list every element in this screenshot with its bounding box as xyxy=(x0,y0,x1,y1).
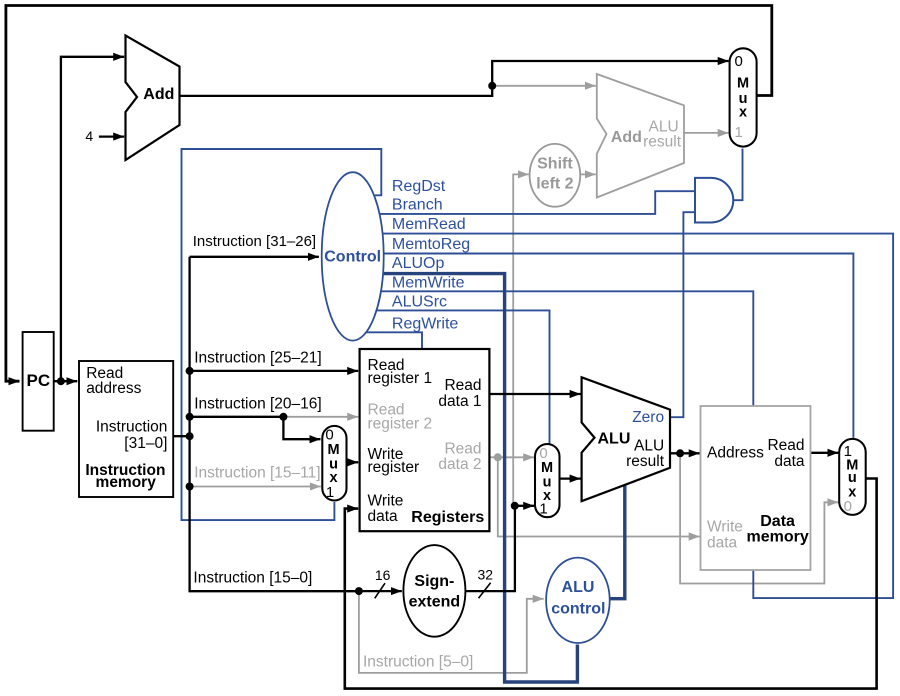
svg-text:extend: extend xyxy=(409,594,461,611)
junction dot instruction bus at [20-16] xyxy=(186,413,194,421)
wire gray Instruction[20-16] to Read register 2 xyxy=(283,416,358,418)
slash 32-bit width mark xyxy=(479,583,491,599)
junction dot instruction bus at [15-11] xyxy=(186,483,194,491)
wire blue Zero from ALU to AND gate input 2 xyxy=(670,212,695,417)
PC register box xyxy=(23,332,54,431)
wire PC value up to Add input xyxy=(61,57,124,381)
junction dot Instruction[15-0] branch xyxy=(355,587,363,595)
svg-text:Control: Control xyxy=(324,249,381,266)
adder Add (PC+4) xyxy=(126,36,180,161)
wire constant 4 to Add input xyxy=(99,135,124,137)
svg-text:Branch: Branch xyxy=(392,196,443,213)
svg-text:Shift: Shift xyxy=(537,156,573,173)
junction dot PC+4 branch xyxy=(488,82,496,90)
svg-text:Add: Add xyxy=(611,129,642,146)
svg-text:ALUOp: ALUOp xyxy=(392,255,445,272)
svg-text:MemRead: MemRead xyxy=(392,216,466,233)
svg-text:Instruction [5–0]: Instruction [5–0] xyxy=(363,653,473,670)
junction dot instruction bus at memory output xyxy=(186,432,194,440)
wire write-reg mux output to Write register xyxy=(347,461,359,463)
svg-text:result: result xyxy=(643,133,682,150)
wire blue AND gate output to top mux select xyxy=(734,149,743,201)
svg-text:register 1: register 1 xyxy=(368,370,433,387)
wire PC feedback from top mux around top and left xyxy=(6,6,772,382)
junction dot sign-extend output branch xyxy=(511,502,519,510)
svg-text:32: 32 xyxy=(478,566,494,582)
wire gray Instruction[15-11] to write-reg mux input 1 xyxy=(190,486,321,488)
mux write register select xyxy=(322,426,346,501)
svg-text:1: 1 xyxy=(326,484,334,501)
svg-text:RegWrite: RegWrite xyxy=(392,316,458,333)
svg-text:16: 16 xyxy=(375,567,391,583)
svg-text:data 2: data 2 xyxy=(438,456,481,473)
wire gray Shift left 2 output to gray Add bottom input xyxy=(578,173,596,175)
svg-text:RegDst: RegDst xyxy=(392,178,446,195)
wire gray Instruction[5-0] to ALU control xyxy=(359,591,544,673)
svg-text:left 2: left 2 xyxy=(536,175,573,192)
junction dot instruction bus at [25-21] xyxy=(186,367,194,375)
wire thick blue ALU control output to ALU xyxy=(607,484,625,599)
svg-text:MemWrite: MemWrite xyxy=(392,275,465,292)
wire Read data 1 to ALU input 1 xyxy=(489,393,580,395)
mux ALUSrc xyxy=(535,444,560,517)
wire blue MemRead from Control to Data memory bottom xyxy=(352,234,893,598)
svg-text:Read: Read xyxy=(444,377,481,394)
svg-text:Instruction [15–0]: Instruction [15–0] xyxy=(193,570,312,587)
svg-text:4: 4 xyxy=(85,128,93,144)
svg-text:Instruction [15–11]: Instruction [15–11] xyxy=(194,465,320,482)
junction dot PC output xyxy=(57,377,65,385)
svg-text:0: 0 xyxy=(844,498,852,515)
svg-text:result: result xyxy=(626,453,665,470)
wire ALUSrc mux output to ALU input 2 xyxy=(560,477,581,479)
wire Instruction[31-26] into Control xyxy=(190,256,319,258)
svg-text:Address: Address xyxy=(707,445,764,462)
svg-text:Registers: Registers xyxy=(411,509,484,526)
svg-text:0: 0 xyxy=(735,53,743,70)
svg-text:register 2: register 2 xyxy=(368,415,433,432)
svg-text:MemtoReg: MemtoReg xyxy=(392,236,470,253)
svg-text:Instruction [20–16]: Instruction [20–16] xyxy=(194,395,322,412)
wire Instruction[20-16] down to write-reg mux input 0 xyxy=(283,417,320,439)
svg-text:Write: Write xyxy=(707,519,743,536)
svg-text:control: control xyxy=(551,601,605,618)
wire Instruction[20-16] black segment xyxy=(190,416,284,418)
mux PC source (top right) xyxy=(730,48,757,146)
svg-text:data: data xyxy=(707,535,738,552)
svg-text:Instruction [25–21]: Instruction [25–21] xyxy=(194,349,322,366)
wire blue MemtoReg from Control to right mux select xyxy=(352,254,853,438)
wire gray Add result to top mux input 1 xyxy=(684,132,729,134)
svg-text:address: address xyxy=(86,380,141,397)
svg-text:[31–0]: [31–0] xyxy=(124,435,167,452)
svg-text:memory: memory xyxy=(96,474,157,491)
svg-text:Read: Read xyxy=(767,437,804,454)
wire ALU result to Data memory Address xyxy=(670,452,700,454)
junction dot ALU result xyxy=(676,449,684,457)
wire blue ALUSrc from Control to ALUSrc mux select xyxy=(352,310,550,443)
wire Add output PC+4 to top mux input 0 xyxy=(180,61,729,96)
data memory box xyxy=(701,406,811,570)
wire Instruction[15-0] into Sign-extend xyxy=(359,590,402,592)
control unit ellipse xyxy=(322,172,384,340)
wire blue MemWrite from Control to Data memory top xyxy=(352,291,753,405)
svg-text:Add: Add xyxy=(143,86,174,103)
wire Instruction[25-21] to Read register 1 xyxy=(190,370,359,372)
wire Instruction memory output to bus xyxy=(172,435,189,437)
svg-text:1: 1 xyxy=(539,500,547,517)
shift left 2 ellipse (inactive gray) xyxy=(530,144,581,207)
junction dot Instruction[20-16] branch xyxy=(279,413,287,421)
slash 16-bit width mark xyxy=(375,583,385,598)
svg-text:Instruction: Instruction xyxy=(96,418,168,435)
junction gray dot Read data 2 xyxy=(494,453,502,461)
AND gate (branch) xyxy=(695,178,733,223)
svg-text:Instruction [31–26]: Instruction [31–26] xyxy=(193,233,316,250)
svg-text:ALUSrc: ALUSrc xyxy=(392,294,447,311)
wire gray ALU result bypass to right mux input 0 xyxy=(680,453,838,583)
svg-text:M: M xyxy=(737,76,749,92)
wire blue Branch from Control to AND gate input 1 xyxy=(352,191,695,214)
svg-text:ALU: ALU xyxy=(598,431,631,448)
svg-text:data 1: data 1 xyxy=(438,393,481,410)
mux write-back (right) xyxy=(839,439,866,515)
wire blue RegWrite from Control to Registers top xyxy=(360,332,422,348)
wire into ALUSrc mux input 1 xyxy=(515,505,535,507)
wire gray Read data 2 down to Data memory Write data xyxy=(498,457,700,536)
svg-text:x: x xyxy=(739,104,747,120)
registers box xyxy=(360,349,490,531)
svg-text:Zero: Zero xyxy=(632,409,664,426)
sign-extend ellipse xyxy=(403,545,465,637)
wire gray PC+4 to gray Add top input xyxy=(492,85,596,87)
svg-text:ALU: ALU xyxy=(562,579,595,596)
wire Data memory Read data to right mux input 1 xyxy=(811,452,839,454)
wire thick blue ALUOp from Control to ALU control xyxy=(352,274,577,682)
wire Sign-extend output up to ALUSrc mux input 1 xyxy=(465,506,515,591)
wire blue RegDst from Control to write-reg mux select xyxy=(182,149,382,520)
ALU main xyxy=(582,377,670,501)
wire PC output to Instruction memory Read address xyxy=(54,380,78,382)
wire gray sign-extend chain up to Shift left 2 xyxy=(513,174,529,505)
wire instruction bus vertical with Instruction[15-0] bottom run xyxy=(190,257,359,591)
svg-text:1: 1 xyxy=(735,124,743,141)
wire gray Read data 2 to ALUSrc mux input 0 xyxy=(489,456,534,458)
adder Add (branch target, inactive gray) xyxy=(597,74,684,198)
ALU control ellipse xyxy=(546,558,610,643)
svg-text:data: data xyxy=(368,508,399,525)
svg-text:PC: PC xyxy=(26,371,50,390)
svg-text:data: data xyxy=(774,453,805,470)
wire write-back from right mux to Registers Write data xyxy=(345,479,877,689)
svg-text:Write: Write xyxy=(368,492,404,509)
instruction memory box xyxy=(79,361,173,497)
svg-text:register: register xyxy=(368,459,420,476)
svg-text:memory: memory xyxy=(746,529,808,546)
svg-text:Sign-: Sign- xyxy=(414,573,454,590)
